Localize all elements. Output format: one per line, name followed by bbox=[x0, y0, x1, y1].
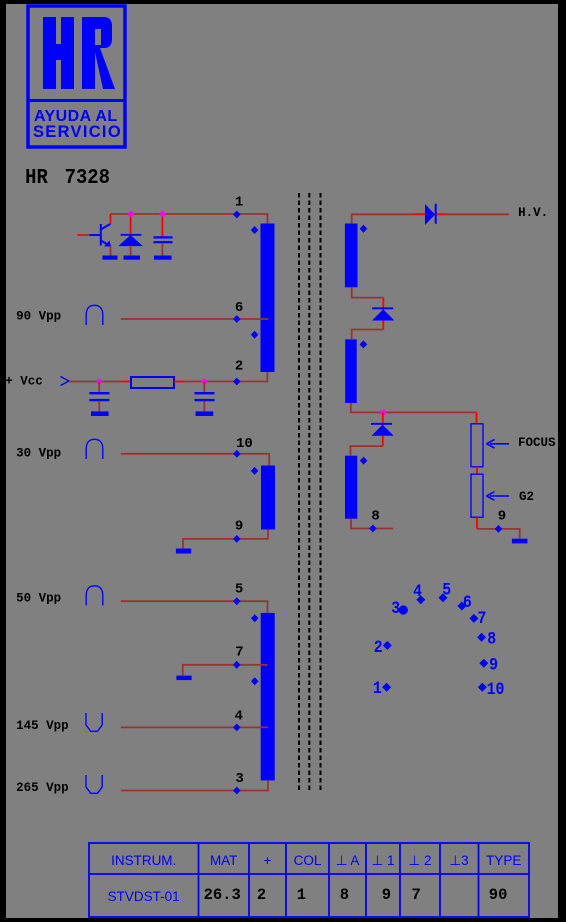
capacitor C1 bbox=[154, 236, 173, 243]
svg-text:+ Vcc: + Vcc bbox=[5, 375, 43, 389]
wire Q1 collector red riser bbox=[110, 214, 112, 224]
svg-text:7: 7 bbox=[412, 886, 421, 904]
wire C3 to ground bbox=[203, 401, 205, 411]
wire pin 9 row left bbox=[183, 530, 268, 549]
secondary winding S1 bbox=[345, 224, 358, 288]
wire red tip base bbox=[78, 234, 82, 236]
svg-text:90 Vpp: 90 Vpp bbox=[16, 309, 61, 323]
svg-text:6: 6 bbox=[463, 592, 472, 612]
pin 8 diamond bbox=[369, 525, 377, 533]
potentiometer G2 bbox=[471, 474, 483, 517]
ground at pin 9 left bbox=[176, 549, 191, 554]
svg-text:MAT: MAT bbox=[210, 853, 238, 868]
svg-text:2: 2 bbox=[374, 637, 383, 657]
svg-text:8: 8 bbox=[371, 508, 379, 524]
junction dot C3 bbox=[202, 379, 208, 385]
ground at C3 bbox=[196, 411, 214, 416]
svg-text:1: 1 bbox=[373, 678, 382, 698]
secondary S3 tap diamond bbox=[360, 457, 368, 465]
pin 7 diamond bbox=[233, 661, 241, 669]
svg-text:2: 2 bbox=[257, 886, 266, 904]
wire top row pin 1 bbox=[111, 214, 268, 224]
pin 9 diamond right bbox=[495, 525, 503, 533]
ground at pin 9 right bbox=[512, 539, 528, 544]
wire red through diode D3 bbox=[382, 412, 384, 446]
wire pin 6 row bbox=[121, 318, 269, 320]
pin 3 diamond bbox=[233, 787, 241, 795]
wire C1 to ground bbox=[161, 243, 163, 256]
pin 6 diamond bbox=[233, 315, 241, 323]
ground at pin 7 bbox=[176, 676, 191, 681]
wire red at HV diode bbox=[414, 213, 445, 215]
pin 2 diamond bbox=[233, 378, 241, 386]
svg-text:3: 3 bbox=[235, 771, 243, 787]
svg-text:3: 3 bbox=[391, 598, 400, 618]
junction dot at D1 top bbox=[128, 211, 134, 217]
waveform 50 Vpp bbox=[86, 586, 103, 606]
svg-text:7328: 7328 bbox=[65, 166, 110, 190]
svg-text:265 Vpp: 265 Vpp bbox=[16, 781, 69, 795]
primary winding W1 (pins 1-6-2) bbox=[261, 224, 275, 373]
wire red G2 down bbox=[476, 517, 478, 529]
svg-text:90: 90 bbox=[489, 886, 508, 904]
wire transistor base lead bbox=[81, 234, 90, 236]
svg-text:FOCUS: FOCUS bbox=[518, 436, 556, 450]
wire pin 9 right row bbox=[477, 529, 520, 539]
svg-text:30 Vpp: 30 Vpp bbox=[16, 447, 61, 461]
svg-text:G2: G2 bbox=[519, 490, 534, 504]
diode D2 bbox=[372, 307, 394, 320]
svg-text:9: 9 bbox=[235, 518, 243, 534]
G2 wiper arrow bbox=[487, 492, 510, 501]
potentiometer FOCUS bbox=[471, 424, 483, 467]
wire pin 7 row bbox=[183, 665, 268, 676]
wire S1 bottom to D2 bbox=[352, 287, 384, 297]
transistor Q1 bbox=[90, 224, 111, 246]
diode D4 cathode bar bbox=[435, 204, 437, 224]
winding W3 tap diamond upper bbox=[251, 614, 259, 622]
diode D3 bbox=[371, 423, 394, 436]
ground at D1 bbox=[124, 256, 141, 260]
winding W2 tap diamond bbox=[251, 467, 259, 475]
Vcc input arrow bbox=[61, 377, 70, 386]
svg-text:SERVICIO: SERVICIO bbox=[33, 123, 122, 141]
svg-text:145 Vpp: 145 Vpp bbox=[16, 719, 69, 733]
svg-text:9: 9 bbox=[498, 509, 506, 525]
wire D3 to S3 top bbox=[351, 446, 383, 456]
pin 10 diamond bbox=[233, 450, 241, 458]
winding W1 tap diamond lower bbox=[251, 331, 259, 339]
wire pin 3 row bbox=[121, 780, 268, 790]
wire C3 drop bbox=[203, 382, 205, 393]
pin 1 diamond bbox=[233, 211, 241, 219]
capacitor C2 bbox=[89, 392, 109, 401]
wire red out resistor right bbox=[174, 381, 185, 383]
junction dot C2 bbox=[96, 379, 102, 385]
wire Vcc row left bbox=[69, 381, 121, 383]
logo letter H bbox=[43, 17, 74, 89]
svg-text:⊥ 1: ⊥ 1 bbox=[371, 853, 394, 868]
svg-text:50 Vpp: 50 Vpp bbox=[16, 591, 61, 605]
svg-text:⊥ A: ⊥ A bbox=[336, 853, 360, 868]
waveform 265 Vpp bbox=[86, 775, 102, 793]
svg-text:COL: COL bbox=[294, 853, 322, 868]
wire pin 8 row bbox=[351, 519, 393, 529]
secondary winding S2 bbox=[345, 339, 357, 403]
svg-text:TYPE: TYPE bbox=[486, 853, 521, 868]
wire S1 top to HV bbox=[352, 214, 414, 223]
wire D2 to S2 top bbox=[352, 330, 384, 340]
svg-text:2: 2 bbox=[235, 359, 243, 375]
svg-text:8: 8 bbox=[487, 628, 496, 648]
winding W1 tap diamond upper bbox=[251, 226, 259, 234]
wire Vcc row right to winding bbox=[185, 372, 268, 382]
wire C2 to ground bbox=[98, 401, 100, 411]
ground at C1 bbox=[154, 256, 172, 260]
capacitor C3 bbox=[195, 392, 215, 401]
svg-text:9: 9 bbox=[489, 655, 498, 675]
svg-text:+: + bbox=[264, 853, 272, 868]
waveform 30 Vpp bbox=[86, 439, 103, 459]
wire red through diode D2 bbox=[382, 298, 384, 330]
wire S2 bottom long horizontal bbox=[351, 403, 477, 412]
svg-text:10: 10 bbox=[487, 679, 505, 699]
winding W3 tap diamond lower bbox=[251, 677, 259, 685]
pin 4 diamond bbox=[233, 724, 241, 732]
logo box HR bbox=[27, 6, 126, 147]
secondary winding S3 bbox=[345, 456, 357, 519]
junction dot at D3 branch bbox=[380, 410, 386, 416]
svg-text:⊥ 2: ⊥ 2 bbox=[408, 853, 431, 868]
diode D4 HV rectifier bbox=[425, 204, 435, 225]
pin 5 diamond bbox=[233, 597, 241, 605]
resistor R1 bbox=[131, 377, 174, 388]
primary winding W2 (pins 10-9) bbox=[261, 466, 275, 530]
wire red to FOCUS pot bbox=[476, 412, 478, 424]
waveform 90 Vpp bbox=[86, 305, 103, 325]
svg-text:1: 1 bbox=[297, 886, 306, 904]
svg-text:6: 6 bbox=[235, 300, 243, 316]
primary winding W3 (pins 5-7-4-3) bbox=[261, 613, 275, 781]
wire red into resistor left bbox=[121, 381, 131, 383]
transformer core dashed lines bbox=[299, 193, 321, 791]
transistor Q1 emitter arrowhead bbox=[104, 241, 111, 247]
wire pin 5 row bbox=[121, 601, 268, 613]
svg-text:INSTRUM.: INSTRUM. bbox=[111, 853, 176, 868]
svg-text:⊥3: ⊥3 bbox=[449, 853, 468, 868]
svg-text:9: 9 bbox=[382, 886, 391, 904]
logo letter R bbox=[82, 17, 115, 89]
svg-text:HR: HR bbox=[25, 166, 48, 190]
svg-text:7: 7 bbox=[478, 608, 487, 628]
data table frame bbox=[89, 843, 529, 917]
svg-text:5: 5 bbox=[235, 582, 243, 598]
svg-text:1: 1 bbox=[235, 195, 243, 211]
secondary S2 tap diamond bbox=[360, 340, 368, 348]
wire red drop to diode D1 bbox=[130, 214, 132, 234]
wire Q1 emitter to ground bbox=[110, 246, 112, 256]
svg-text:10: 10 bbox=[236, 436, 253, 452]
diode D1 bbox=[120, 234, 142, 246]
svg-text:7: 7 bbox=[235, 644, 243, 660]
junction dot at C1 top bbox=[160, 211, 166, 217]
wire red between pots bbox=[476, 467, 478, 474]
pin 9 diamond left bbox=[233, 535, 241, 543]
svg-text:26.3: 26.3 bbox=[204, 886, 241, 904]
wire pin 10 row bbox=[121, 454, 269, 466]
ground at C2 bbox=[91, 411, 109, 416]
waveform 145 Vpp bbox=[86, 713, 102, 731]
wire D1 to ground bbox=[130, 246, 132, 256]
svg-text:STVDST-01: STVDST-01 bbox=[108, 889, 180, 904]
svg-text:H.V.: H.V. bbox=[518, 206, 548, 220]
svg-text:8: 8 bbox=[340, 886, 349, 904]
ground at Q1 emitter bbox=[103, 256, 118, 260]
wire pin 4 row bbox=[121, 726, 268, 728]
secondary S1 tap diamond bbox=[360, 225, 368, 233]
wire red drop to capacitor C1 bbox=[161, 214, 163, 237]
wire HV right bbox=[445, 213, 509, 215]
FOCUS wiper arrow bbox=[487, 440, 510, 449]
svg-text:4: 4 bbox=[235, 708, 243, 724]
wire C2 drop bbox=[98, 382, 100, 393]
